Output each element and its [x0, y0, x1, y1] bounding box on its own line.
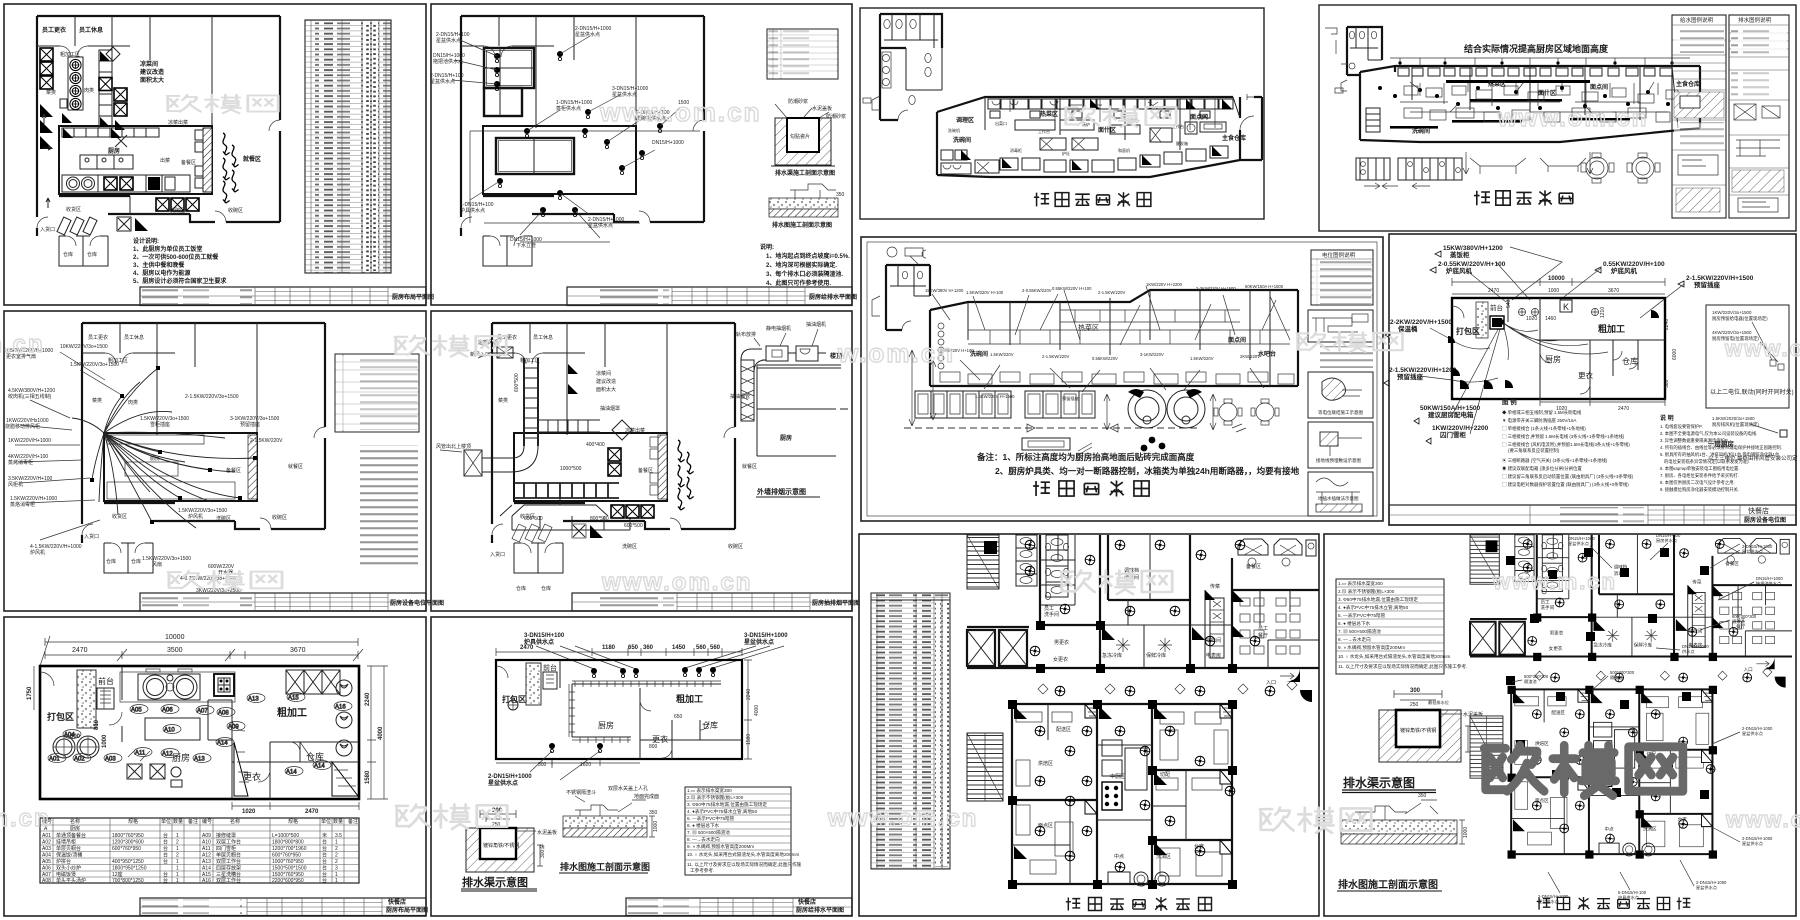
svg-text:A16: A16	[202, 878, 211, 884]
svg-text:员工休息: 员工休息	[124, 334, 144, 341]
svg-text:主食仓库: 主食仓库	[1222, 134, 1246, 142]
equipment schedule table right	[305, 20, 391, 273]
tilted pallets at receiving	[57, 217, 97, 235]
tiled room walls top-left	[484, 48, 534, 88]
svg-text:洗消区: 洗消区	[1156, 853, 1171, 860]
svg-text:编号: 编号	[202, 818, 212, 825]
svg-text:菜类: 菜类	[498, 397, 508, 404]
svg-text:1: 1	[176, 866, 179, 872]
svg-text:热菜区: 热菜区	[1078, 323, 1099, 332]
svg-text:1210: 1210	[1600, 307, 1606, 318]
terrazzo band F	[526, 663, 541, 705]
svg-text:名称: 名称	[230, 818, 240, 825]
svg-text:保鲜冷库: 保鲜冷库	[1146, 652, 1166, 659]
svg-text:3500: 3500	[167, 647, 183, 654]
svg-text:A11: A11	[202, 846, 211, 852]
svg-text:w.om.cn: w.om.cn	[837, 338, 955, 368]
escalator top-left	[967, 535, 999, 589]
left equipment column: X-boxes	[40, 48, 53, 61]
svg-text:数量: 数量	[173, 818, 183, 825]
svg-text:单位: 单位	[321, 818, 331, 825]
svg-text:▢ 建议电柜对数器保护装置位置 (联由厨具厂) (3条火线+: ▢ 建议电柜对数器保护装置位置 (联由厨具厂) (3条火线+0条零线)	[1502, 481, 1629, 488]
svg-text:DN15/H+1000: DN15/H+1000	[652, 140, 684, 146]
svg-text:抽油烟罩: 抽油烟罩	[600, 405, 620, 412]
svg-text:10000: 10000	[1548, 276, 1565, 282]
svg-text:名称: 名称	[70, 818, 80, 825]
external wall exhaust schematic	[730, 321, 848, 497]
svg-text:10KW/220V/3o+1500: 10KW/220V/3o+1500	[60, 344, 108, 350]
svg-text:台: 台	[163, 877, 168, 884]
svg-text:快餐店: 快餐店	[1748, 506, 1769, 515]
floor drain lines	[470, 131, 700, 242]
svg-text:双层水关盖上人孔: 双层水关盖上人孔	[608, 785, 648, 792]
svg-text:A14: A14	[286, 770, 297, 776]
svg-text:om.cn: om.cn	[0, 805, 51, 832]
small pipe symbol top-left	[1325, 28, 1337, 54]
svg-text:A03: A03	[42, 846, 51, 852]
svg-text:▢ 建议留三角联系反启动装置位置 (联由厨具厂) (3条火线: ▢ 建议留三角联系反启动装置位置 (联由厨具厂) (3条火线+3条零线)	[1502, 473, 1634, 480]
top pipe run with risers	[1390, 58, 1690, 66]
svg-text:入货口: 入货口	[84, 533, 99, 540]
svg-text:四门雪柜: 四门雪柜	[216, 845, 236, 852]
svg-text:员工: 员工	[1258, 626, 1268, 632]
building outline shared def	[37, 16, 280, 266]
sheet G frame	[860, 8, 1264, 219]
water supply dots with leaders	[494, 51, 663, 217]
cook line hood	[120, 672, 235, 702]
left low block	[1366, 108, 1380, 132]
svg-text:消毒柜: 消毒柜	[1010, 147, 1022, 153]
range A08	[214, 674, 234, 696]
svg-text:A16: A16	[335, 705, 346, 711]
electrostatic cleaner box	[766, 346, 788, 361]
svg-text:4. 所有的插线合、由线位等必须要带漏电保护并接地正固路控制: 4. 所有的插线合、由线位等必须要带漏电保护并接地正固路控制.	[1660, 444, 1782, 451]
svg-text:粗加工: 粗加工	[676, 693, 703, 704]
double wok unit A06	[138, 674, 200, 700]
svg-text:员工休息: 员工休息	[79, 26, 103, 34]
svg-text:▢ 三相接线合 (风机电流用),并预留1.5M长电线(3条火: ▢ 三相接线合 (风机电流用),并预留1.5M长电线(3条火线+1条零线)	[1502, 441, 1630, 448]
watermark omwang sheet A	[167, 95, 278, 113]
svg-text:规格: 规格	[128, 818, 138, 825]
small round tables I	[1214, 399, 1279, 425]
title block strip J	[1389, 505, 1796, 525]
svg-text:囚门雪柜: 囚门雪柜	[1440, 430, 1467, 439]
svg-text:4. ●表示PVC中75排水立管,离地50: 4. ●表示PVC中75排水立管,离地50	[687, 808, 758, 815]
svg-text:A10: A10	[164, 728, 175, 734]
watermark omwang sheets I/J boundary	[1297, 332, 1403, 352]
plumbing callouts L	[1428, 533, 1783, 905]
drain channel cross-section L	[1342, 688, 1483, 793]
rough prep X-boxes	[286, 670, 340, 694]
svg-text:米: 米	[322, 832, 327, 839]
svg-text:3-DN15/H+1000: 3-DN15/H+1000	[744, 633, 788, 639]
front desk box F	[543, 672, 557, 689]
svg-text:快餐店: 快餐店	[797, 898, 816, 906]
center island A10	[145, 718, 200, 740]
svg-text:四层存放架: 四层存放架	[216, 865, 241, 872]
staff rooms top	[37, 16, 130, 128]
svg-text:备注: 备注	[348, 818, 358, 825]
svg-text:1KW/220V/H+1000: 1KW/220V/H+1000	[8, 438, 51, 444]
radiating electrical cables	[72, 368, 255, 528]
watermark omwang sheet C bottom	[168, 571, 282, 590]
front desk cabinet	[97, 688, 114, 709]
terrazzo counter band	[77, 670, 96, 728]
front desk J	[1490, 316, 1504, 329]
svg-text:1000*500: 1000*500	[560, 466, 582, 472]
svg-text:风管出北上楼顶: 风管出北上楼顶	[436, 443, 471, 450]
duct size labels	[514, 373, 643, 529]
title 厨房给排水平面图 L	[1537, 897, 1691, 910]
svg-text:A08: A08	[42, 878, 51, 884]
svg-text:面什区: 面什区	[1098, 126, 1116, 134]
svg-text:台席: 台席	[1194, 843, 1204, 850]
svg-text:▣ 三相断路器 (空气开关) (3条火线+1条零线+1条地线: ▣ 三相断路器 (空气开关) (3条火线+1条零线+1条地线)	[1502, 457, 1608, 464]
svg-text:2240: 2240	[746, 689, 752, 700]
top dimension lines	[40, 636, 363, 666]
drain construction section	[769, 184, 845, 229]
svg-text:3670: 3670	[1608, 288, 1619, 294]
callout labels top	[1389, 245, 1754, 439]
washroom stalls	[1040, 535, 1075, 605]
svg-text:醒发箱: 醒发箱	[1176, 140, 1188, 146]
svg-text:800: 800	[649, 744, 658, 750]
leader lines J	[1420, 247, 1684, 434]
title block strip C	[140, 593, 444, 611]
svg-text:2、一次可供500-600位员工就餐: 2、一次可供500-600位员工就餐	[133, 253, 219, 261]
svg-text:4、此图只可作参考使用.: 4、此图只可作参考使用.	[766, 279, 831, 287]
svg-text:www.m.cn: www.m.cn	[1492, 569, 1617, 594]
svg-text:A01: A01	[49, 757, 60, 763]
scattered leader lines + labels	[932, 286, 1290, 392]
legend table F	[685, 787, 802, 875]
svg-text:9. ◑ 水阀阀,预留水管高度200Mm: 9. ◑ 水阀阀,预留水管高度200Mm	[687, 843, 754, 850]
room walls J	[1452, 298, 1665, 399]
svg-text:5、厨房设计必须符合国家卫生要求: 5、厨房设计必须符合国家卫生要求	[133, 277, 227, 285]
svg-text:1、此厨房为单位员工饭堂: 1、此厨房为单位员工饭堂	[133, 245, 202, 253]
svg-text:开水器: 开水器	[218, 569, 233, 576]
svg-text:4、厨房以电作为能源: 4、厨房以电作为能源	[133, 269, 190, 277]
svg-text:A07: A07	[197, 709, 208, 715]
svg-text:700*800*1250: 700*800*1250	[112, 878, 144, 884]
svg-text:1.5KW/220V: 1.5KW/220V	[990, 352, 1014, 357]
svg-text:炉风机: 炉风机	[188, 513, 203, 520]
svg-text:星盆供水点: 星盆供水点	[1742, 730, 1763, 737]
dimension 10000	[1452, 278, 1665, 294]
svg-text:300深: 300深	[539, 845, 546, 858]
storerooms	[59, 236, 108, 266]
svg-text:洗碗区: 洗碗区	[170, 207, 185, 214]
svg-text:凉菜出菜: 凉菜出菜	[168, 119, 188, 126]
kitchen counters (light)	[125, 462, 178, 476]
toilet block top-left	[863, 14, 942, 120]
svg-text:2-1.5KW/220V: 2-1.5KW/220V	[1042, 354, 1069, 359]
svg-text:7. ▦ 500×500隔渣池: 7. ▦ 500×500隔渣池	[687, 829, 730, 836]
sheet J frame	[1389, 234, 1796, 525]
storage rack triangles	[234, 742, 248, 796]
svg-text:蒸烤消毒柜: 蒸烤消毒柜	[8, 459, 33, 466]
vertical double arrows	[909, 350, 1216, 430]
svg-text:粗加工区: 粗加工区	[60, 51, 80, 58]
center islands	[1015, 120, 1055, 130]
svg-text:双层工作台: 双层工作台	[216, 858, 241, 865]
svg-text:2: 2	[335, 859, 338, 865]
toilet block H	[1335, 27, 1382, 93]
leader triangles	[1384, 251, 1684, 444]
flow arrows	[42, 114, 52, 208]
svg-text:560: 560	[710, 645, 721, 651]
svg-text:540: 540	[1506, 299, 1512, 308]
svg-text:台: 台	[163, 845, 168, 852]
toilets	[884, 20, 931, 105]
entrance fans	[1286, 668, 1300, 682]
sinks	[882, 52, 891, 88]
svg-text:A14: A14	[314, 764, 325, 770]
detail boxes I	[1308, 372, 1373, 516]
svg-text:打包区: 打包区	[502, 694, 526, 704]
svg-text:om.cn: om.cn	[0, 331, 45, 358]
svg-text:下水立管: 下水立管	[516, 242, 536, 249]
meat prep column	[99, 50, 112, 128]
svg-text:接修缝罩: 接修缝罩	[216, 832, 236, 839]
svg-text:炉底风机: 炉底风机	[1611, 266, 1638, 275]
svg-text:就餐区: 就餐区	[288, 463, 303, 470]
svg-text:餐厅: 餐厅	[1258, 632, 1268, 639]
watermark omwang sheet K faint	[1061, 570, 1172, 594]
sheet H frame	[1319, 5, 1796, 231]
svg-text:凉菜间: 凉菜间	[140, 60, 158, 68]
svg-text:1000: 1000	[1463, 827, 1469, 838]
svg-text:仓库: 仓库	[306, 751, 324, 762]
svg-text:2: 2	[176, 853, 179, 859]
water dots H	[1378, 86, 1670, 110]
svg-text:厨房供水点: 厨房供水点	[1656, 537, 1677, 544]
svg-text:雪柜插座: 雪柜插座	[150, 421, 170, 428]
svg-text:A13: A13	[248, 697, 259, 703]
svg-text:炉具供水点: 炉具供水点	[460, 207, 485, 214]
svg-text:炉拼台: 炉拼台	[56, 858, 71, 865]
vertical exhaust duct	[741, 360, 754, 421]
svg-text:4. ●表示PVC中75排水立管,离地50: 4. ●表示PVC中75排水立管,离地50	[1338, 604, 1409, 611]
svg-text:设计说明:: 设计说明:	[133, 237, 159, 245]
svg-text:2: 2	[176, 840, 179, 846]
svg-text:烧味间: 烧味间	[1206, 637, 1221, 644]
sheet L frame	[1324, 534, 1796, 916]
svg-text:560: 560	[696, 645, 707, 651]
svg-text:3-DN15/H+100: 3-DN15/H+100	[524, 633, 565, 639]
main band outline I	[930, 290, 1298, 386]
svg-text:结合实际情况提高厨房区域地面高度: 结合实际情况提高厨房区域地面高度	[1464, 43, 1609, 54]
svg-text:360: 360	[643, 645, 654, 651]
svg-text:厨房: 厨房	[108, 147, 120, 155]
svg-text:抽油烟机: 抽油烟机	[806, 321, 826, 328]
title block strip B	[567, 287, 857, 306]
serving tables bottom	[1356, 158, 1462, 180]
svg-text:仓库: 仓库	[131, 558, 141, 565]
legend box C	[335, 354, 419, 432]
svg-text:打包区: 打包区	[1456, 326, 1480, 336]
svg-text:星盆供水点: 星盆供水点	[1742, 548, 1763, 555]
svg-text:www.o: www.o	[1725, 807, 1800, 832]
svg-text:排水渠示意图: 排水渠示意图	[1343, 775, 1415, 790]
svg-text:11. 以上尺寸及要求应以现场实际情况而确定,此图只作施工参: 11. 以上尺寸及要求应以现场实际情况而确定,此图只作施工参考.	[1338, 663, 1467, 670]
svg-text:2-1.5KW/220V/3o+1500: 2-1.5KW/220V/3o+1500	[185, 394, 239, 400]
svg-text:面积太大: 面积太大	[140, 76, 164, 84]
svg-text:2-1.5KW/220V: 2-1.5KW/220V	[250, 438, 283, 444]
title block strip D	[572, 593, 860, 611]
svg-text:肉类: 肉类	[128, 399, 138, 406]
title block strip	[140, 287, 434, 306]
svg-text:A11: A11	[135, 751, 146, 757]
svg-text:K: K	[1563, 302, 1569, 312]
svg-text:台: 台	[322, 852, 327, 859]
svg-text:保温桶: 保温桶	[1397, 324, 1418, 333]
svg-text:12座: 12座	[112, 871, 123, 878]
wash area small shapes	[118, 218, 130, 230]
svg-text:1、地沟起点到终点坡度i=0.5%.: 1、地沟起点到终点坡度i=0.5%.	[766, 252, 850, 260]
svg-text:50KW/150A/H+1500: 50KW/150A/H+1500	[1420, 405, 1481, 412]
title 厨房平面布局	[1034, 192, 1151, 206]
svg-text:1800*950*1250: 1800*950*1250	[112, 866, 147, 872]
svg-text:说 明: 说 明	[1660, 414, 1674, 422]
svg-text:3. Φ50中75排水地漏,位置由施工现场定: 3. Φ50中75排水地漏,位置由施工现场定	[1338, 596, 1418, 603]
svg-text:◉ 建议双联配电箱 (须多位分闸/分闸位置: ◉ 建议双联配电箱 (须多位分闸/分闸位置	[1502, 465, 1582, 472]
bottom fixtures	[1108, 872, 1130, 884]
svg-text:挂墙吊柜: 挂墙吊柜	[56, 839, 76, 846]
svg-text:台: 台	[322, 877, 327, 884]
svg-text:11. 以上尺寸及要求应以现场实际情况而确定,此图只作施: 11. 以上尺寸及要求应以现场实际情况而确定,此图只作施	[687, 861, 802, 868]
dims F	[496, 648, 742, 656]
building outline reuse	[461, 16, 704, 266]
svg-text:仓库: 仓库	[516, 585, 526, 592]
svg-text:建议改造: 建议改造	[596, 378, 616, 385]
svg-text:建议改造: 建议改造	[140, 68, 164, 76]
svg-text:星盆供水点: 星盆供水点	[1568, 540, 1589, 547]
svg-text:厨房布局平面图: 厨房布局平面图	[392, 293, 434, 301]
door right	[1240, 94, 1257, 130]
svg-text:台: 台	[163, 858, 168, 865]
svg-text:1460: 1460	[1545, 316, 1556, 322]
svg-text:3. 异性调整数据重要隔离漏电保护P.: 3. 异性调整数据重要隔离漏电保护P.	[1660, 437, 1728, 444]
building outline reuse	[492, 323, 735, 573]
svg-text:隔渣池: 隔渣池	[1610, 674, 1623, 681]
leader lines	[452, 36, 680, 238]
svg-text:台: 台	[322, 858, 327, 865]
svg-text:星盆供水点: 星盆供水点	[1742, 840, 1763, 847]
svg-text:面什区: 面什区	[1538, 89, 1556, 97]
svg-text:厨房预留给电器(位置现场定): 厨房预留给电器(位置现场定)	[1712, 315, 1768, 322]
svg-text:员工休息: 员工休息	[533, 334, 553, 341]
legend box top right	[767, 29, 838, 79]
svg-text:1020: 1020	[242, 809, 256, 815]
top equipment row	[988, 99, 1233, 118]
svg-text:电表房: 电表房	[1206, 652, 1221, 659]
equipment tags (ellipses)	[48, 693, 352, 776]
svg-text:工作台: 工作台	[1038, 128, 1050, 134]
svg-text:4000: 4000	[378, 726, 384, 740]
svg-text:▼ 电源带开关三脚防溅插座 250V/16A: ▼ 电源带开关三脚防溅插座 250V/16A	[1502, 417, 1576, 424]
svg-text:0.55KW/220V/H+100: 0.55KW/220V/H+100	[1603, 261, 1665, 268]
svg-text:星盆供水点: 星盆供水点	[1696, 884, 1717, 891]
main supply duct vertical	[524, 358, 538, 446]
bottom dims J	[1540, 398, 1665, 406]
svg-text:2200*600*950: 2200*600*950	[272, 878, 304, 884]
corridor diamonds	[1038, 680, 1297, 694]
svg-text:3. Φ50中75排水地漏,位置由施工现场定: 3. Φ50中75排水地漏,位置由施工现场定	[687, 801, 767, 808]
svg-text:台: 台	[322, 839, 327, 846]
worktable groups below band	[915, 391, 1095, 418]
drain construction section L	[1337, 793, 1469, 891]
canopy shapes mid	[1470, 158, 1586, 174]
svg-text:2: 2	[335, 846, 338, 852]
left callout leaders	[15, 352, 120, 540]
staff dining tables	[1240, 598, 1300, 654]
svg-text:打包区: 打包区	[47, 711, 74, 722]
building plan group (reused by sheet L)	[967, 535, 1319, 889]
svg-text:更衣: 更衣	[652, 734, 668, 744]
black fan sectors	[1448, 310, 1659, 389]
svg-text:的电位安装临条异常情况定(以联系发发为准).: 的电位安装临条异常情况定(以联系发发为准).	[1664, 458, 1750, 465]
svg-text:前台: 前台	[98, 676, 114, 686]
sheet E frame	[4, 617, 426, 916]
svg-text:0.55KW/220V H+100: 0.55KW/220V H+100	[1052, 286, 1092, 291]
svg-text:镀锌角铁/不锈钢: 镀锌角铁/不锈钢	[1400, 727, 1436, 734]
svg-text:仓库: 仓库	[63, 251, 73, 258]
svg-text:www.om.cn: www.om.cn	[601, 569, 752, 596]
svg-text:炉底风机: 炉底风机	[1446, 266, 1473, 275]
svg-text:1: 1	[335, 840, 338, 846]
svg-text:5. —表示PVC中75暗管: 5. —表示PVC中75暗管	[1338, 612, 1386, 619]
svg-text:中厨区: 中厨区	[1110, 773, 1125, 780]
svg-text:最低排水位: 最低排水位	[1428, 699, 1449, 706]
svg-text:3、每个排水口必须装隔渣池.: 3、每个排水口必须装隔渣池.	[766, 270, 843, 278]
svg-text:A06: A06	[162, 708, 173, 714]
svg-text:1580: 1580	[365, 770, 371, 784]
svg-text:星盆供水点: 星盆供水点	[588, 222, 613, 229]
K mark	[1560, 300, 1572, 312]
svg-text:轨布放排: 轨布放排	[736, 331, 756, 338]
svg-text:1000*760*950: 1000*760*950	[272, 859, 304, 865]
svg-text:男更衣: 男更衣	[1054, 639, 1069, 646]
svg-text:650: 650	[628, 645, 639, 651]
dashed route line	[904, 427, 1200, 429]
svg-text:单头平头汤炉: 单头平头汤炉	[56, 877, 86, 884]
canopy hoods over cook line	[512, 505, 630, 530]
fan circles right	[336, 680, 352, 756]
svg-text:前台: 前台	[1490, 303, 1503, 312]
svg-text:2470: 2470	[1488, 288, 1499, 294]
svg-text:台: 台	[163, 839, 168, 846]
svg-text:300: 300	[1410, 688, 1421, 694]
thick pipe bars	[1446, 80, 1590, 83]
cabinet columns	[1016, 535, 1037, 586]
svg-text:建议厨房配电箱: 建议厨房配电箱	[1427, 410, 1474, 419]
room labels G	[953, 110, 1246, 144]
svg-text:1. 电线套设要管保护P.: 1. 电线套设要管保护P.	[1660, 423, 1703, 430]
svg-text:备餐区: 备餐区	[1246, 563, 1261, 570]
svg-text:1: 1	[335, 878, 338, 884]
svg-text:600: 600	[70, 734, 81, 740]
svg-text:洗碗间: 洗碗间	[970, 350, 988, 358]
svg-text:2470: 2470	[72, 647, 88, 654]
svg-text:3: 3	[335, 866, 338, 872]
svg-text:抽油烟管: 抽油烟管	[730, 393, 750, 400]
svg-text:蒸柜供水点: 蒸柜供水点	[556, 105, 581, 112]
svg-text:三星洗糟台: 三星洗糟台	[216, 871, 241, 878]
svg-text:◆ 单相或三相五线制,预留 1.5M长明电线: ◆ 单相或三相五线制,预留 1.5M长明电线	[1502, 409, 1582, 416]
dish wash boxes D	[611, 505, 624, 518]
svg-text:810: 810	[94, 719, 100, 730]
